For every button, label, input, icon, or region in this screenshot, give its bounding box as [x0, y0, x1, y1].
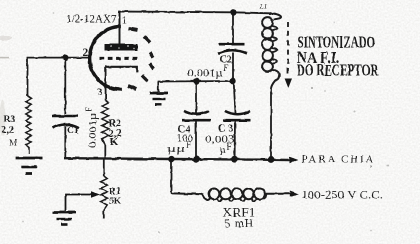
svg-text:R3: R3	[4, 115, 16, 125]
svg-text:,: ,	[370, 160, 372, 169]
svg-text:L1: L1	[259, 2, 268, 11]
svg-text:3: 3	[98, 88, 103, 98]
svg-text:0.001µ: 0.001µ	[87, 113, 99, 148]
svg-text:F: F	[84, 107, 94, 112]
svg-text:5K: 5K	[109, 197, 122, 207]
svg-text:5 mH: 5 mH	[225, 218, 254, 230]
svg-text:F: F	[186, 140, 191, 150]
svg-text:µ: µ	[220, 145, 226, 156]
svg-text:µµ: µµ	[167, 144, 185, 155]
svg-text:R1: R1	[109, 187, 121, 197]
svg-text:M: M	[9, 139, 18, 149]
svg-text:1/2-12AX7: 1/2-12AX7	[66, 14, 117, 26]
svg-text:C1: C1	[67, 126, 79, 136]
svg-text:2: 2	[83, 47, 89, 59]
svg-text:F: F	[224, 63, 229, 73]
svg-text:PARA CHIA: PARA CHIA	[302, 153, 374, 165]
svg-text:1: 1	[122, 16, 127, 27]
svg-text:2,2: 2,2	[2, 125, 15, 136]
svg-text:DO RECEPTOR: DO RECEPTOR	[297, 61, 379, 80]
svg-text:0.001µ: 0.001µ	[188, 69, 223, 80]
svg-text:K: K	[110, 137, 119, 148]
svg-text:100-250 V C.C.: 100-250 V C.C.	[302, 187, 384, 201]
svg-text:F: F	[227, 142, 232, 152]
